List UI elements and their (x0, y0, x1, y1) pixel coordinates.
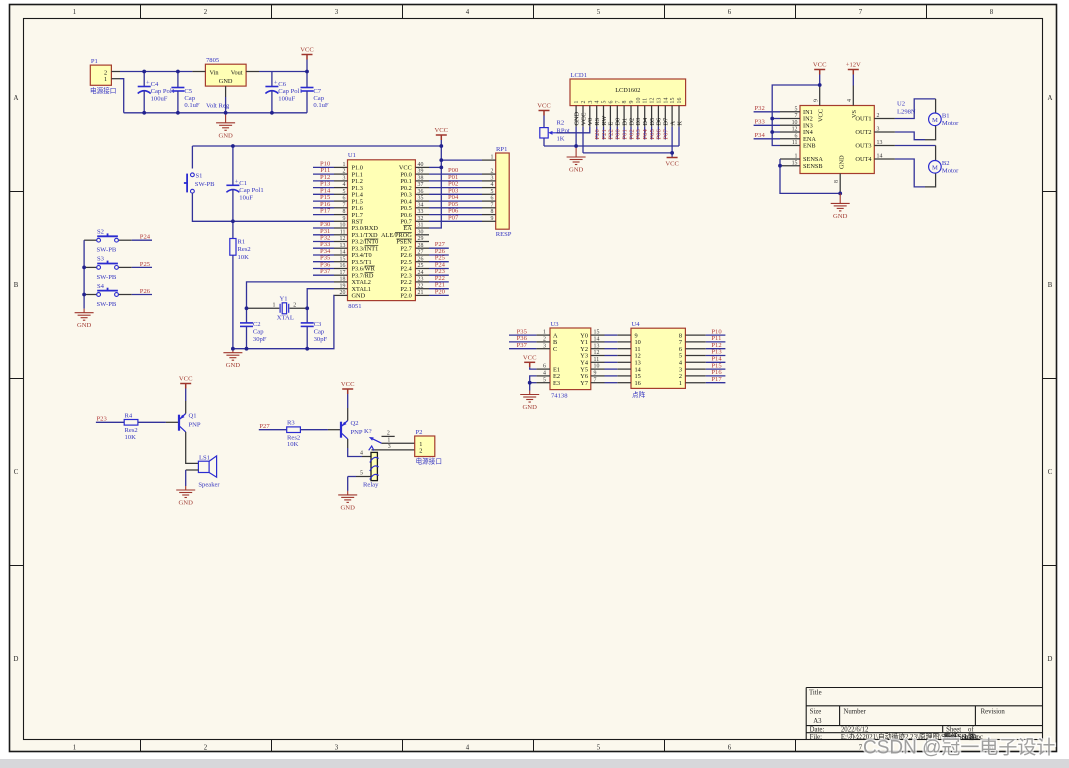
svg-text:8: 8 (491, 209, 494, 215)
svg-text:2: 2 (342, 169, 345, 175)
junction C3 bottom (305, 347, 309, 351)
capacitor C7 (306, 72, 308, 88)
wire top rail P1 to 7805 Vin (120, 71, 192, 73)
LCD1 pin 3 (589, 106, 591, 127)
wire net P37 (313, 274, 334, 276)
svg-text:1: 1 (273, 303, 276, 309)
U4 pin 11 (617, 348, 631, 350)
RP1 pin 9 (482, 220, 496, 222)
svg-text:2: 2 (204, 745, 208, 752)
U1 pin 15 (334, 261, 348, 263)
junction (142, 111, 146, 115)
svg-text:OUT3: OUT3 (855, 143, 871, 150)
svg-text:6: 6 (608, 101, 614, 104)
U3 pin 4 E2 (536, 375, 550, 377)
svg-text:8: 8 (342, 209, 345, 215)
wire XTAL2 pin18 (247, 282, 335, 308)
svg-text:31: 31 (418, 223, 424, 229)
svg-text:Volt Reg: Volt Reg (206, 103, 230, 110)
RP1 pin 5 (482, 193, 496, 195)
junction C1 bottom / RST (231, 219, 235, 223)
junction S4 (82, 293, 86, 297)
wire net P15 (313, 200, 334, 202)
svg-text:Cap: Cap (313, 95, 324, 102)
svg-text:Cap Pol1: Cap Pol1 (151, 88, 175, 95)
wire pin5 left (348, 476, 356, 478)
U2 pin 9 VCC (top) (819, 86, 821, 106)
svg-text:10: 10 (594, 364, 600, 370)
RP1 pin 2 (482, 173, 496, 175)
wire net P35 (313, 261, 334, 263)
svg-text:File:: File: (810, 734, 823, 741)
U4 pin 6 (685, 348, 705, 350)
U2 pin 14 OUT4 (874, 158, 895, 160)
U1 pin 12 (334, 241, 348, 243)
svg-text:1: 1 (543, 330, 546, 336)
svg-text:Cap Pol1: Cap Pol1 (278, 88, 302, 95)
svg-text:S1: S1 (196, 172, 203, 179)
B1 pin bottom (925, 126, 936, 140)
wire R2 wiper to LCD pin3 (557, 127, 590, 133)
svg-text:Q2: Q2 (351, 420, 359, 427)
junction (142, 70, 146, 74)
wire U3 Y1 to U4 (605, 341, 618, 343)
U3 pin 10 Y5 (591, 368, 605, 370)
svg-text:11: 11 (594, 357, 600, 363)
svg-text:GND: GND (352, 293, 366, 300)
wire VCC to E1 (530, 367, 537, 369)
svg-text:B1: B1 (942, 113, 950, 120)
svg-text:GND: GND (833, 213, 848, 220)
U1 pin 26 (415, 261, 429, 263)
svg-text:D: D (1048, 656, 1053, 663)
capacitor C3 (306, 308, 308, 323)
svg-text:SW-PB: SW-PB (97, 301, 117, 308)
svg-text:30: 30 (418, 229, 424, 235)
svg-text:1: 1 (574, 101, 580, 104)
svg-text:C3: C3 (314, 321, 322, 328)
svg-text:GND: GND (179, 500, 194, 507)
junction pin40 (439, 166, 443, 170)
svg-text:P32: P32 (755, 105, 765, 112)
U4 pin 13 (617, 361, 631, 363)
svg-text:E3: E3 (553, 380, 560, 387)
capacitor C6 plates (265, 87, 278, 94)
svg-text:SW-PB: SW-PB (97, 247, 117, 254)
Q2 emitter pin (347, 408, 349, 421)
wire net P35 (509, 334, 536, 336)
svg-text:5: 5 (543, 377, 546, 383)
svg-text:A3: A3 (813, 718, 822, 725)
svg-text:M: M (932, 117, 938, 124)
svg-text:Res2: Res2 (238, 246, 251, 253)
U1 pin 30 (415, 234, 429, 236)
wire net P32 (313, 241, 334, 243)
svg-text:Title: Title (809, 690, 822, 697)
power VCC below LCD (inverted) (671, 153, 673, 158)
junction GND pin8 (838, 192, 842, 196)
svg-text:2: 2 (491, 169, 494, 175)
U4 pin 7 (685, 341, 705, 343)
svg-text:19: 19 (340, 283, 346, 289)
svg-text:4: 4 (360, 451, 363, 457)
U3 pin 2 B (536, 341, 550, 343)
wire LCD pin15 to vcc rail (671, 127, 673, 153)
svg-text:P33: P33 (755, 119, 766, 126)
svg-text:电源接口: 电源接口 (416, 457, 442, 466)
svg-text:3: 3 (588, 101, 594, 104)
svg-text:U3: U3 (551, 321, 560, 328)
svg-text:16: 16 (340, 263, 346, 269)
U2 pin 3 OUT2 (874, 131, 895, 133)
wire LCD net P03 (637, 127, 639, 140)
svg-text:2: 2 (293, 303, 296, 309)
wire net P11 (706, 341, 726, 343)
junction (176, 70, 180, 74)
junction S3 (82, 266, 86, 270)
U1 pin 31 (415, 227, 429, 229)
resistor pack RP1 (496, 153, 510, 229)
U2 pin 5 IN1 (780, 111, 800, 113)
wire LCD gnd rail (544, 145, 679, 147)
svg-text:9: 9 (814, 99, 820, 102)
svg-text:18: 18 (340, 277, 346, 283)
svg-text:GND: GND (219, 78, 233, 85)
capacitor C5 plates (171, 88, 184, 92)
wire reset left rail upper (191, 146, 193, 169)
svg-text:P37: P37 (320, 268, 331, 275)
wire +12V to VS (852, 75, 854, 86)
svg-text:9: 9 (629, 101, 635, 104)
svg-text:GND: GND (226, 362, 241, 369)
svg-text:CSDN @冠一电子设计: CSDN @冠一电子设计 (863, 737, 1055, 759)
connector P1 (90, 65, 111, 85)
svg-text:VCC: VCC (341, 381, 355, 388)
power VCC at U2 (814, 70, 825, 75)
svg-text:Size: Size (810, 709, 822, 716)
svg-text:C1: C1 (239, 180, 247, 187)
wire R4 to Q1 base (138, 421, 166, 423)
wire speaker bottom to GND (186, 469, 199, 471)
ground below relay (338, 491, 357, 503)
svg-text:1: 1 (73, 9, 76, 16)
wire net P14 (313, 193, 334, 195)
net label P27 (259, 429, 287, 431)
svg-text:5: 5 (602, 101, 608, 104)
svg-text:74138: 74138 (551, 393, 568, 400)
svg-text:13: 13 (656, 98, 662, 104)
U2 pin 15 SENSB (780, 165, 800, 167)
svg-text:2022/6/12: 2022/6/12 (841, 727, 869, 734)
U4 pin 4 (685, 361, 705, 363)
wire net P01 (429, 180, 482, 182)
svg-text:5: 5 (491, 189, 494, 195)
wire Vout rail to VCC/C7 (259, 71, 307, 73)
junction reset rail / VCC (439, 144, 443, 148)
svg-text:11: 11 (643, 98, 649, 104)
svg-text:A: A (14, 95, 19, 102)
svg-text:P17: P17 (711, 376, 722, 383)
resistor R3 body (287, 427, 301, 433)
U1 pin 2 (334, 173, 348, 175)
svg-text:12: 12 (340, 236, 346, 242)
svg-text:VCC: VCC (665, 161, 679, 168)
RP1 pin 8 (482, 214, 496, 216)
relay contact pin 2 (382, 435, 395, 437)
svg-text:C: C (14, 469, 19, 476)
LCD1 pin 16 (678, 106, 680, 127)
U1 pin 9 (334, 220, 348, 222)
wire U3 Y5 to U4 (605, 368, 618, 370)
switch S1 SW-PB (184, 174, 187, 193)
svg-text:8: 8 (622, 101, 628, 104)
U3 pin 12 Y3 (591, 355, 605, 357)
wire net P04 (429, 200, 482, 202)
svg-text:C5: C5 (184, 88, 192, 95)
RP1 pin 6 (482, 200, 496, 202)
svg-text:21: 21 (418, 290, 424, 296)
LCD1 pin 8 (623, 106, 625, 127)
junction E3 (528, 381, 532, 385)
capacitor C5 (177, 72, 179, 88)
svg-text:LCD1: LCD1 (571, 72, 587, 79)
svg-text:15: 15 (670, 98, 676, 104)
wire net P11 (313, 173, 334, 175)
svg-text:VCC: VCC (817, 109, 824, 122)
svg-text:C: C (553, 346, 557, 353)
svg-text:1: 1 (73, 745, 76, 752)
svg-text:10: 10 (792, 120, 798, 126)
svg-text:VS: VS (851, 109, 858, 118)
wire net P22 (429, 281, 449, 283)
wire LCD net P06 (657, 127, 659, 140)
svg-text:Relay: Relay (363, 481, 379, 488)
LCD1 pin 14 (664, 106, 666, 127)
LCD1 pin 9 (630, 106, 632, 127)
svg-text:10K: 10K (287, 441, 299, 448)
svg-text:P1: P1 (91, 58, 98, 65)
svg-text:10K: 10K (238, 254, 250, 261)
svg-text:13: 13 (340, 243, 346, 249)
Q1 emitter pin (185, 401, 187, 414)
svg-text:17: 17 (340, 270, 346, 276)
wire net P16 (313, 207, 334, 209)
U1 pin 6 (334, 200, 348, 202)
svg-text:5: 5 (342, 189, 345, 195)
wire LCD net P05 (651, 127, 653, 140)
wire reset top rail (192, 145, 441, 147)
svg-text:S2: S2 (97, 229, 104, 236)
svg-text:+: + (235, 178, 239, 185)
wire net P20 (429, 294, 449, 296)
svg-text:29: 29 (418, 236, 424, 242)
wire LCD net P07 (664, 127, 666, 140)
U2 pin 13 OUT3 (874, 145, 895, 147)
U3 pin 13 Y2 (591, 348, 605, 350)
svg-text:LS1: LS1 (199, 454, 210, 461)
ground below U3 (520, 391, 539, 403)
capacitor C1 plates (226, 185, 239, 192)
svg-text:40: 40 (418, 162, 424, 168)
svg-text:Number: Number (844, 709, 867, 716)
svg-text:30pF: 30pF (253, 336, 267, 343)
U1 pin 28 (415, 247, 429, 249)
RP1 pin 7 (482, 207, 496, 209)
svg-text:12: 12 (594, 350, 600, 356)
LCD1 pin 5 (603, 106, 605, 127)
wire net P27 (429, 247, 449, 249)
capacitor C1 (232, 146, 234, 185)
wire net P34 (313, 254, 334, 256)
svg-text:22: 22 (418, 283, 424, 289)
svg-text:4: 4 (543, 371, 546, 377)
LCD1 pin 12 (651, 106, 653, 127)
U1 pin 34 (415, 207, 429, 209)
wire R3 to Q2 base (300, 429, 328, 431)
svg-text:7: 7 (615, 101, 621, 104)
junction IN4 (770, 130, 774, 134)
svg-text:电源接口: 电源接口 (90, 86, 116, 95)
U4 pin 12 (617, 355, 631, 357)
svg-text:10: 10 (340, 223, 346, 229)
svg-text:XTAL: XTAL (277, 315, 294, 322)
wire net P12 (313, 180, 334, 182)
LCD1 pin 4 (596, 106, 598, 127)
svg-text:VCC: VCC (179, 376, 193, 383)
svg-text:7: 7 (594, 377, 597, 383)
svg-text:PNP: PNP (189, 422, 201, 429)
7805 Vout pin (246, 71, 259, 73)
svg-text:8: 8 (990, 9, 994, 16)
svg-text:5: 5 (597, 9, 601, 16)
B2 pin top (935, 146, 937, 161)
capacitor C7 plates (301, 88, 314, 92)
svg-text:VCC: VCC (523, 355, 537, 362)
ground below switches (75, 309, 94, 321)
svg-text:12: 12 (792, 127, 798, 133)
svg-text:13: 13 (877, 140, 883, 146)
svg-text:1: 1 (342, 162, 345, 168)
wire OUT2 to B1 (895, 132, 925, 140)
ground below R1/crystal (223, 349, 242, 361)
svg-text:C2: C2 (253, 321, 261, 328)
U1 pin 33 (415, 214, 429, 216)
U3 pin 1 A (536, 334, 550, 336)
junction LCD gnd (574, 144, 578, 148)
wire OUT4 to B2 (895, 159, 925, 187)
svg-text:3: 3 (388, 444, 391, 450)
wire OUT1 to B1 (895, 99, 936, 119)
RP1 pin 1 (482, 159, 496, 161)
svg-text:14: 14 (877, 154, 883, 160)
svg-text:3: 3 (342, 176, 345, 182)
wire net P24 (132, 239, 152, 241)
svg-text:K?: K? (364, 428, 372, 435)
capacitor C2 plates (240, 323, 253, 327)
ground below U2 (831, 193, 850, 211)
wire net P21 (429, 288, 449, 290)
junction IN2 (770, 117, 774, 121)
svg-text:P07: P07 (663, 129, 670, 140)
wire net P12 (706, 348, 726, 350)
svg-text:U4: U4 (632, 321, 641, 328)
U1 pin 5 (334, 193, 348, 195)
svg-text:C7: C7 (313, 88, 321, 95)
wire LCD net P00 (616, 127, 618, 140)
svg-text:11: 11 (792, 140, 798, 146)
svg-text:4: 4 (847, 99, 853, 102)
power VCC at Q2 (342, 389, 353, 394)
ground below LCD (567, 146, 586, 165)
power VCC at regulator output (302, 55, 313, 60)
wire U3 Y2 to U4 (605, 348, 618, 350)
power VCC at U3 E1 (524, 362, 535, 367)
junction rail R1 (231, 347, 235, 351)
wire net P25 (132, 266, 152, 268)
junction C1 top (231, 144, 235, 148)
wire net P06 (429, 214, 482, 216)
svg-text:100uF: 100uF (278, 95, 295, 102)
Y1 pin 2 lead (290, 307, 308, 309)
capacitor C2 (246, 308, 248, 323)
U2 pin 2 OUT1 (874, 118, 895, 120)
transistor Q2 PNP (340, 422, 342, 438)
svg-text:ENB: ENB (803, 143, 816, 150)
wire net P10 (313, 166, 334, 168)
svg-text:4: 4 (466, 745, 470, 752)
svg-text:3: 3 (335, 745, 339, 752)
resistor R1 body (230, 239, 236, 256)
svg-text:5: 5 (597, 745, 601, 752)
U1 pin 24 (415, 274, 429, 276)
title block (806, 688, 1043, 741)
wire net P17 (706, 382, 726, 384)
Q2 base pin (328, 429, 341, 431)
svg-text:37: 37 (418, 182, 424, 188)
LCD1 pin 13 (657, 106, 659, 127)
U3 pin 14 Y1 (591, 341, 605, 343)
RP1 pin 3 (482, 180, 496, 182)
U1 pin 40 (415, 166, 429, 168)
wire LCD net P04 (644, 127, 646, 140)
svg-text:11: 11 (340, 229, 346, 235)
wire OUT3 to B2 (895, 145, 936, 147)
svg-text:GND: GND (218, 132, 233, 139)
svg-text:P07: P07 (448, 214, 459, 221)
svg-text:D: D (14, 656, 19, 663)
svg-text:Motor: Motor (942, 120, 959, 127)
junction LCD vcc (670, 151, 674, 155)
svg-text:Speaker: Speaker (198, 482, 220, 489)
svg-text:Y1: Y1 (280, 296, 288, 303)
wire VCC to Q1 emitter (185, 389, 187, 402)
svg-text:P2: P2 (416, 429, 423, 436)
svg-text:1: 1 (795, 154, 798, 160)
U4 pin 14 (617, 368, 631, 370)
svg-text:Cap: Cap (314, 329, 325, 336)
wire E2/E3 to GND (530, 376, 537, 391)
svg-text:K: K (676, 121, 683, 126)
U4 pin 8 (685, 334, 705, 336)
wire net P32 (754, 111, 780, 113)
svg-text:S3: S3 (97, 256, 105, 263)
svg-text:6: 6 (543, 364, 546, 370)
wire pin40 to VCC (429, 166, 441, 168)
LCD1 pin 7 (616, 106, 618, 127)
junction Y1 pin2 (305, 306, 309, 310)
wire net P07 (429, 220, 482, 222)
wire net P13 (313, 187, 334, 189)
